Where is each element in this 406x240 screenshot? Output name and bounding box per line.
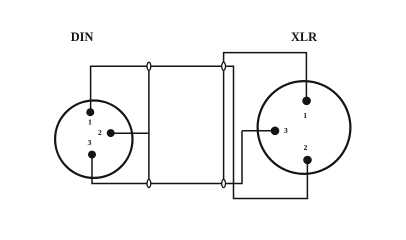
wire DIN pin2 stub (111, 132, 149, 134)
wire to XLR pin3 (242, 130, 275, 132)
svg-text:XLR: XLR (291, 30, 317, 44)
svg-text:DIN: DIN (71, 30, 94, 44)
wire DIN pin1 to cable entry (top) (91, 66, 224, 112)
DIN connector body (55, 101, 132, 178)
XLR connector body (258, 81, 351, 174)
svg-text:2: 2 (98, 128, 102, 137)
cable entry oval bottom-right (222, 179, 226, 187)
DIN pin 3 (88, 151, 96, 159)
wire shield vertical (left) (148, 66, 150, 183)
XLR pin 3 (271, 127, 280, 136)
wire DIN pin3 to XLR pin3 (bottom) (92, 131, 242, 184)
DIN pin 1 (86, 108, 94, 116)
XLR pin 1 (302, 97, 311, 106)
svg-text:2: 2 (303, 143, 307, 152)
wire cable to XLR pin1 (224, 53, 307, 101)
cable entry oval top-right (222, 62, 226, 70)
svg-text:3: 3 (88, 138, 92, 147)
svg-text:1: 1 (88, 118, 92, 127)
wire cable to XLR pin2 (224, 66, 308, 198)
cable entry oval bottom-left (147, 179, 151, 187)
svg-text:1: 1 (303, 111, 307, 120)
svg-text:3: 3 (284, 126, 288, 135)
wire shield vertical (right) (223, 66, 225, 183)
DIN pin 2 (107, 129, 115, 137)
cable entry oval top-left (147, 62, 151, 70)
XLR pin 2 (303, 156, 312, 165)
